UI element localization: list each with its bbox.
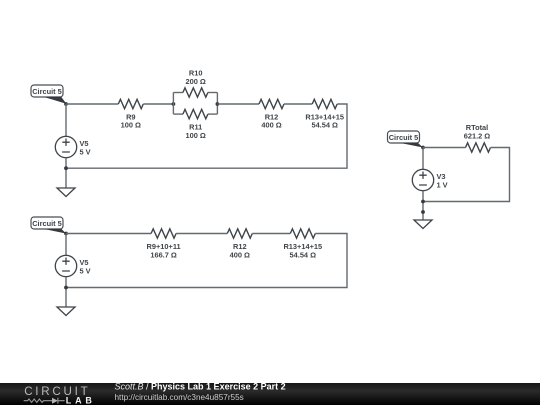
svg-text:Circuit 5: Circuit 5: [32, 219, 62, 228]
wire: [208, 113, 218, 115]
resistor R12: [227, 229, 252, 260]
ground: [57, 307, 75, 316]
wire: [143, 103, 173, 105]
ground: [57, 188, 75, 197]
wire: [423, 148, 510, 202]
wire: [422, 191, 424, 220]
flag label Circuit 5 (top-left circuit): [31, 85, 66, 104]
wire: [217, 103, 259, 105]
svg-text:54.54 Ω: 54.54 Ω: [311, 120, 338, 129]
svg-text:100 Ω: 100 Ω: [186, 131, 206, 140]
wire: [65, 277, 67, 307]
resistor RTotal: [464, 123, 491, 152]
node: [216, 102, 220, 106]
resistor R13+14+15: [305, 99, 344, 129]
svg-text:621.2 Ω: 621.2 Ω: [464, 132, 491, 141]
node: [64, 286, 68, 290]
svg-text:400 Ω: 400 Ω: [230, 251, 250, 260]
svg-text:Circuit 5: Circuit 5: [32, 87, 62, 96]
node: [172, 102, 176, 106]
wire: [66, 103, 118, 105]
wire: [66, 234, 347, 288]
wire: [172, 93, 174, 115]
svg-text:200 Ω: 200 Ω: [186, 77, 206, 86]
wire: [66, 233, 151, 235]
svg-text:54.54 Ω: 54.54 Ω: [290, 251, 317, 260]
wire: [423, 147, 466, 149]
svg-text:5 V: 5 V: [80, 266, 91, 275]
flag label Circuit 5 (right circuit): [388, 131, 424, 148]
wire: [65, 158, 67, 188]
wire: [252, 233, 290, 235]
svg-text:Circuit 5: Circuit 5: [389, 133, 419, 142]
voltage source V5: [55, 255, 90, 276]
wire: [173, 113, 183, 115]
node: [64, 232, 68, 236]
node: [64, 166, 68, 170]
svg-text:Scott.B / Physics Lab 1 Exerci: Scott.B / Physics Lab 1 Exercise 2 Part …: [115, 381, 286, 391]
resistor R10: [183, 69, 208, 98]
svg-text:1 V: 1 V: [437, 180, 448, 189]
voltage source V3: [412, 169, 447, 190]
flag label Circuit 5 (bottom-left circuit): [31, 217, 66, 234]
node: [421, 146, 425, 150]
svg-text:100 Ω: 100 Ω: [121, 120, 141, 129]
resistor R13+14+15: [283, 229, 322, 260]
wire: [422, 148, 424, 170]
CircuitLab logo diode triangle: [52, 398, 58, 404]
node: [421, 200, 425, 204]
node: [421, 210, 425, 214]
resistor R9+10+11: [147, 229, 181, 260]
wire: [66, 104, 347, 168]
svg-text:http://circuitlab.com/c3ne4u85: http://circuitlab.com/c3ne4u857r55s: [115, 393, 244, 402]
node: [64, 102, 68, 106]
svg-text:5 V: 5 V: [80, 147, 91, 156]
resistor R9: [118, 99, 143, 129]
wire: [208, 92, 218, 94]
voltage source V5: [55, 136, 90, 157]
svg-text:166.7 Ω: 166.7 Ω: [150, 251, 177, 260]
wire: [65, 104, 67, 136]
wire: [176, 233, 227, 235]
footer bar: [0, 383, 540, 405]
CircuitLab logo schematic glyph: [24, 398, 65, 404]
resistor R12: [259, 99, 284, 129]
svg-text:400 Ω: 400 Ω: [261, 120, 281, 129]
wire: [65, 234, 67, 256]
resistor R11: [183, 109, 208, 140]
ground: [414, 220, 432, 229]
wire: [173, 92, 183, 94]
wire: [284, 103, 312, 105]
wire: [216, 93, 218, 115]
svg-text:LAB: LAB: [66, 395, 96, 405]
